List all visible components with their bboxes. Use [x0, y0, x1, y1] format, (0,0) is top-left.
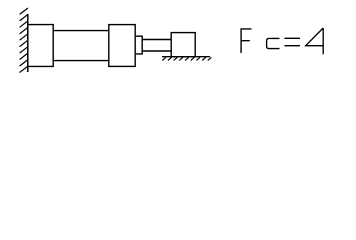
flange cylinder (left, attached to wall) — [28, 25, 53, 67]
label Fc=4 digit 4 — [306, 28, 324, 54]
label Fc=4 equals sign — [284, 38, 300, 45]
end support block — [171, 33, 195, 57]
ground hatching — [162, 57, 211, 60]
label Fc=4 letter c — [267, 38, 280, 48]
main shaft body — [53, 31, 109, 61]
ground line — [162, 56, 210, 58]
large block (second step) — [109, 25, 135, 67]
thin rod — [142, 40, 171, 52]
fixed wall support hatching — [20, 8, 28, 73]
wall face line — [27, 14, 29, 72]
label Fc=4 letter F — [241, 29, 251, 53]
stub collar on block right face — [135, 36, 142, 54]
